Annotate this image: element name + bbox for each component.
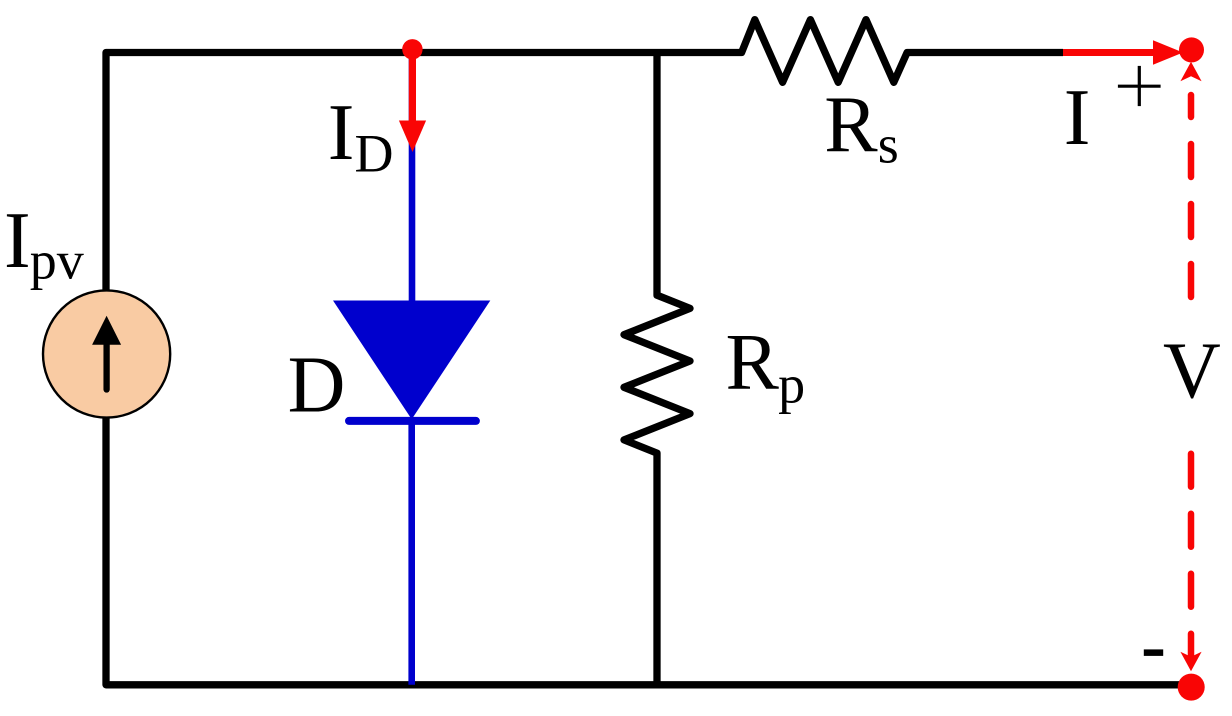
wire: Rp branch with resistor Rp zigzag xyxy=(624,49,690,688)
wire: lower left vertical + bottom horizontal xyxy=(106,418,1185,685)
svg-text:R: R xyxy=(726,318,780,406)
current source Ipv circle xyxy=(43,290,170,417)
I output red wire xyxy=(1063,49,1154,56)
diode D upper blue lead xyxy=(409,53,416,301)
svg-text:D: D xyxy=(355,124,394,184)
V arrow head down xyxy=(1180,652,1201,672)
wire: upper-left vertical + top horizontal + resistor Rs zigzag + top-right segment xyxy=(106,20,1063,291)
minus sign xyxy=(1144,649,1163,656)
svg-text:s: s xyxy=(878,115,899,175)
svg-text:R: R xyxy=(824,81,878,169)
I output arrow head xyxy=(1153,40,1183,65)
node dot (top junction) xyxy=(402,39,422,59)
ID current arrow shaft xyxy=(409,49,416,121)
svg-text:D: D xyxy=(288,341,346,429)
current source arrow head xyxy=(92,316,121,345)
V dashed line upper xyxy=(1188,95,1195,297)
diode D cathode bar xyxy=(349,417,476,425)
V dashed line lower xyxy=(1188,454,1195,662)
svg-text:V: V xyxy=(1163,328,1221,416)
svg-text:I: I xyxy=(4,197,31,285)
svg-text:I: I xyxy=(1064,74,1091,162)
svg-text:I: I xyxy=(328,89,355,177)
diode D triangle xyxy=(333,301,490,420)
svg-text:pv: pv xyxy=(30,230,84,290)
svg-text:p: p xyxy=(778,354,805,414)
V arrow head up xyxy=(1180,62,1201,82)
node dot (minus terminal) xyxy=(1178,674,1205,701)
node dot (plus terminal) xyxy=(1179,37,1204,62)
ID current arrow head xyxy=(399,121,426,153)
diode D lower blue lead xyxy=(408,421,415,685)
current source arrow shaft xyxy=(103,341,109,390)
plus sign xyxy=(1118,85,1161,88)
